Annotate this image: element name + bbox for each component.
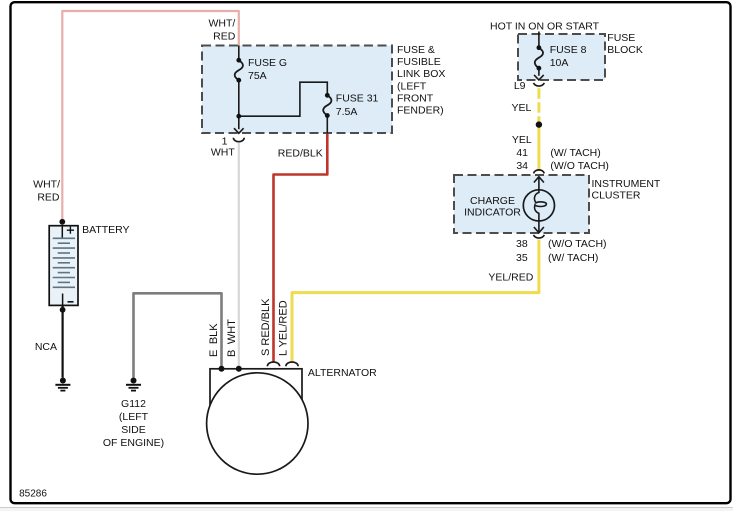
svg-text:FUSE: FUSE bbox=[607, 32, 635, 44]
svg-text:NCA: NCA bbox=[35, 341, 57, 353]
svg-text:75A: 75A bbox=[248, 70, 267, 82]
wire WHT/RED battery to fuse box bbox=[62, 11, 239, 222]
svg-text:BATTERY: BATTERY bbox=[82, 224, 129, 236]
svg-text:35: 35 bbox=[516, 252, 528, 264]
svg-text:SIDE: SIDE bbox=[121, 424, 146, 436]
svg-text:RED/BLK: RED/BLK bbox=[278, 148, 323, 160]
svg-text:OF ENGINE): OF ENGINE) bbox=[103, 437, 164, 449]
svg-text:L YEL/RED: L YEL/RED bbox=[277, 300, 289, 356]
alternator bbox=[207, 369, 308, 474]
svg-text:INDICATOR: INDICATOR bbox=[464, 207, 521, 219]
svg-text:(W/ TACH): (W/ TACH) bbox=[550, 147, 600, 159]
battery bbox=[49, 219, 78, 313]
svg-text:ALTERNATOR: ALTERNATOR bbox=[308, 367, 377, 379]
pin B node bbox=[236, 366, 242, 372]
splice node bbox=[536, 121, 542, 127]
svg-text:WHT: WHT bbox=[211, 147, 235, 159]
svg-text:(LEFT: (LEFT bbox=[397, 80, 427, 92]
fuse 31 7.5A bbox=[323, 93, 331, 118]
svg-text:FENDER): FENDER) bbox=[397, 105, 444, 117]
wire YEL splice to cluster bbox=[537, 125, 540, 170]
cluster bottom connector arc bbox=[534, 235, 545, 238]
svg-text:RED: RED bbox=[213, 31, 236, 43]
fuse G 75A bbox=[235, 58, 243, 83]
svg-text:YEL: YEL bbox=[511, 102, 531, 114]
wire YEL/RED cluster to alternator L bbox=[292, 240, 539, 362]
svg-text:L9: L9 bbox=[514, 80, 526, 92]
connector L9 arc bbox=[534, 83, 545, 86]
connector 1 (arc) bbox=[233, 138, 244, 142]
svg-text:85286: 85286 bbox=[19, 488, 47, 499]
svg-text:41: 41 bbox=[516, 147, 528, 159]
svg-text:S RED/BLK: S RED/BLK bbox=[260, 298, 272, 356]
fuse 8 10A bbox=[535, 45, 543, 70]
svg-text:1: 1 bbox=[222, 135, 228, 147]
junction node fuse G out bbox=[236, 114, 241, 119]
svg-text:WHT/: WHT/ bbox=[208, 18, 235, 30]
charge indicator lamp filament bbox=[534, 190, 546, 221]
svg-text:E BLK: E BLK bbox=[208, 323, 220, 357]
arrow at fuse G exit bbox=[234, 128, 244, 133]
svg-text:10A: 10A bbox=[550, 57, 569, 69]
fuse 8 feed line bbox=[538, 32, 540, 48]
fuse 8 exit line + arrow bbox=[534, 68, 544, 80]
svg-text:FRONT: FRONT bbox=[397, 92, 434, 104]
svg-text:34: 34 bbox=[516, 160, 528, 172]
svg-text:CLUSTER: CLUSTER bbox=[592, 190, 641, 202]
wire YEL dashed L9 to splice bbox=[537, 88, 540, 124]
svg-text:B WHT: B WHT bbox=[226, 319, 238, 357]
instrument cluster box (dashed) bbox=[454, 175, 589, 233]
wire NCA battery to ground bbox=[61, 306, 63, 378]
pin E node bbox=[219, 366, 225, 372]
svg-text:(W/ TACH): (W/ TACH) bbox=[548, 252, 598, 264]
svg-text:INSTRUMENT: INSTRUMENT bbox=[592, 178, 661, 190]
svg-text:FUSIBLE: FUSIBLE bbox=[397, 56, 441, 68]
svg-text:FUSE 31: FUSE 31 bbox=[336, 92, 379, 104]
svg-text:(W/O TACH): (W/O TACH) bbox=[548, 238, 607, 250]
bottom page strip bbox=[0, 508, 733, 511]
fuse & fusible link box (dashed) bbox=[202, 46, 392, 134]
svg-text:BLOCK: BLOCK bbox=[607, 44, 643, 56]
svg-text:FUSE G: FUSE G bbox=[248, 57, 287, 69]
svg-text:(LEFT: (LEFT bbox=[119, 411, 149, 423]
svg-text:CHARGE: CHARGE bbox=[470, 195, 515, 207]
wire RED/BLK fuse 31 to alternator S bbox=[274, 134, 328, 362]
svg-text:RED: RED bbox=[37, 192, 60, 204]
svg-text:HOT IN ON OR START: HOT IN ON OR START bbox=[490, 21, 600, 33]
svg-text:38: 38 bbox=[516, 238, 528, 250]
ground G112 bbox=[126, 378, 141, 391]
svg-text:FUSE &: FUSE & bbox=[397, 44, 435, 56]
svg-text:LINK BOX: LINK BOX bbox=[397, 68, 445, 80]
wire WHT fuse G to alternator B bbox=[238, 143, 240, 369]
pin L connector arc bbox=[286, 362, 298, 366]
fuse block box (dashed) bbox=[518, 34, 605, 80]
fuse box internal wiring bbox=[239, 46, 327, 134]
svg-text:G112: G112 bbox=[121, 398, 146, 410]
svg-text:FUSE 8: FUSE 8 bbox=[550, 44, 587, 56]
cluster top connector arc bbox=[534, 170, 545, 174]
wire BLK G112 to alternator E bbox=[134, 293, 222, 377]
svg-text:YEL/RED: YEL/RED bbox=[488, 272, 533, 284]
svg-text:(W/O TACH): (W/O TACH) bbox=[550, 160, 609, 172]
svg-text:WHT/: WHT/ bbox=[33, 178, 60, 190]
ground NCA bbox=[55, 378, 70, 391]
pin S connector arc bbox=[267, 362, 279, 366]
svg-text:7.5A: 7.5A bbox=[336, 106, 358, 118]
cluster internal arrows and lamp bbox=[523, 177, 554, 233]
svg-text:YEL: YEL bbox=[512, 134, 532, 146]
